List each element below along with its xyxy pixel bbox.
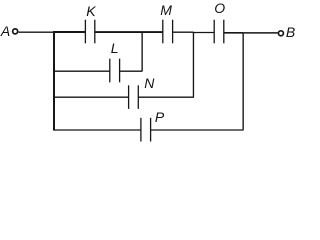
wire L to right riser — [120, 70, 143, 72]
riser L branch to top wire — [141, 32, 143, 71]
svg-text:M: M — [160, 2, 172, 18]
capacitor P — [141, 118, 151, 142]
wire O to P riser junction — [224, 32, 243, 34]
svg-text:A: A — [0, 23, 10, 39]
wire N to right riser — [138, 96, 193, 98]
riser P branch to top wire — [242, 33, 244, 131]
wire left bus to L — [54, 70, 110, 72]
wire N riser junction to O — [193, 32, 214, 34]
capacitor L — [110, 59, 120, 83]
wire P riser junction to B — [243, 32, 278, 34]
capacitor O — [214, 20, 224, 44]
svg-text:N: N — [144, 75, 155, 91]
capacitor M — [163, 20, 173, 44]
node A terminal — [13, 29, 18, 34]
riser N branch to top wire — [192, 32, 194, 98]
svg-text:L: L — [111, 40, 119, 56]
svg-text:B: B — [286, 24, 295, 40]
svg-text:K: K — [86, 3, 96, 19]
capacitor N — [129, 85, 139, 109]
left bus vertical wire — [53, 31, 55, 130]
node B terminal — [278, 31, 283, 36]
wire left junction to K — [53, 31, 85, 33]
wire A to left junction — [18, 31, 53, 33]
wire K to M — [95, 31, 163, 33]
svg-text:P: P — [155, 109, 165, 125]
svg-text:O: O — [214, 0, 225, 16]
capacitor K — [85, 20, 94, 44]
wire P to right riser — [151, 129, 244, 131]
wire left bus to N — [54, 96, 129, 98]
wire left bus to P — [54, 129, 141, 131]
wire M to N riser junction — [173, 31, 194, 33]
